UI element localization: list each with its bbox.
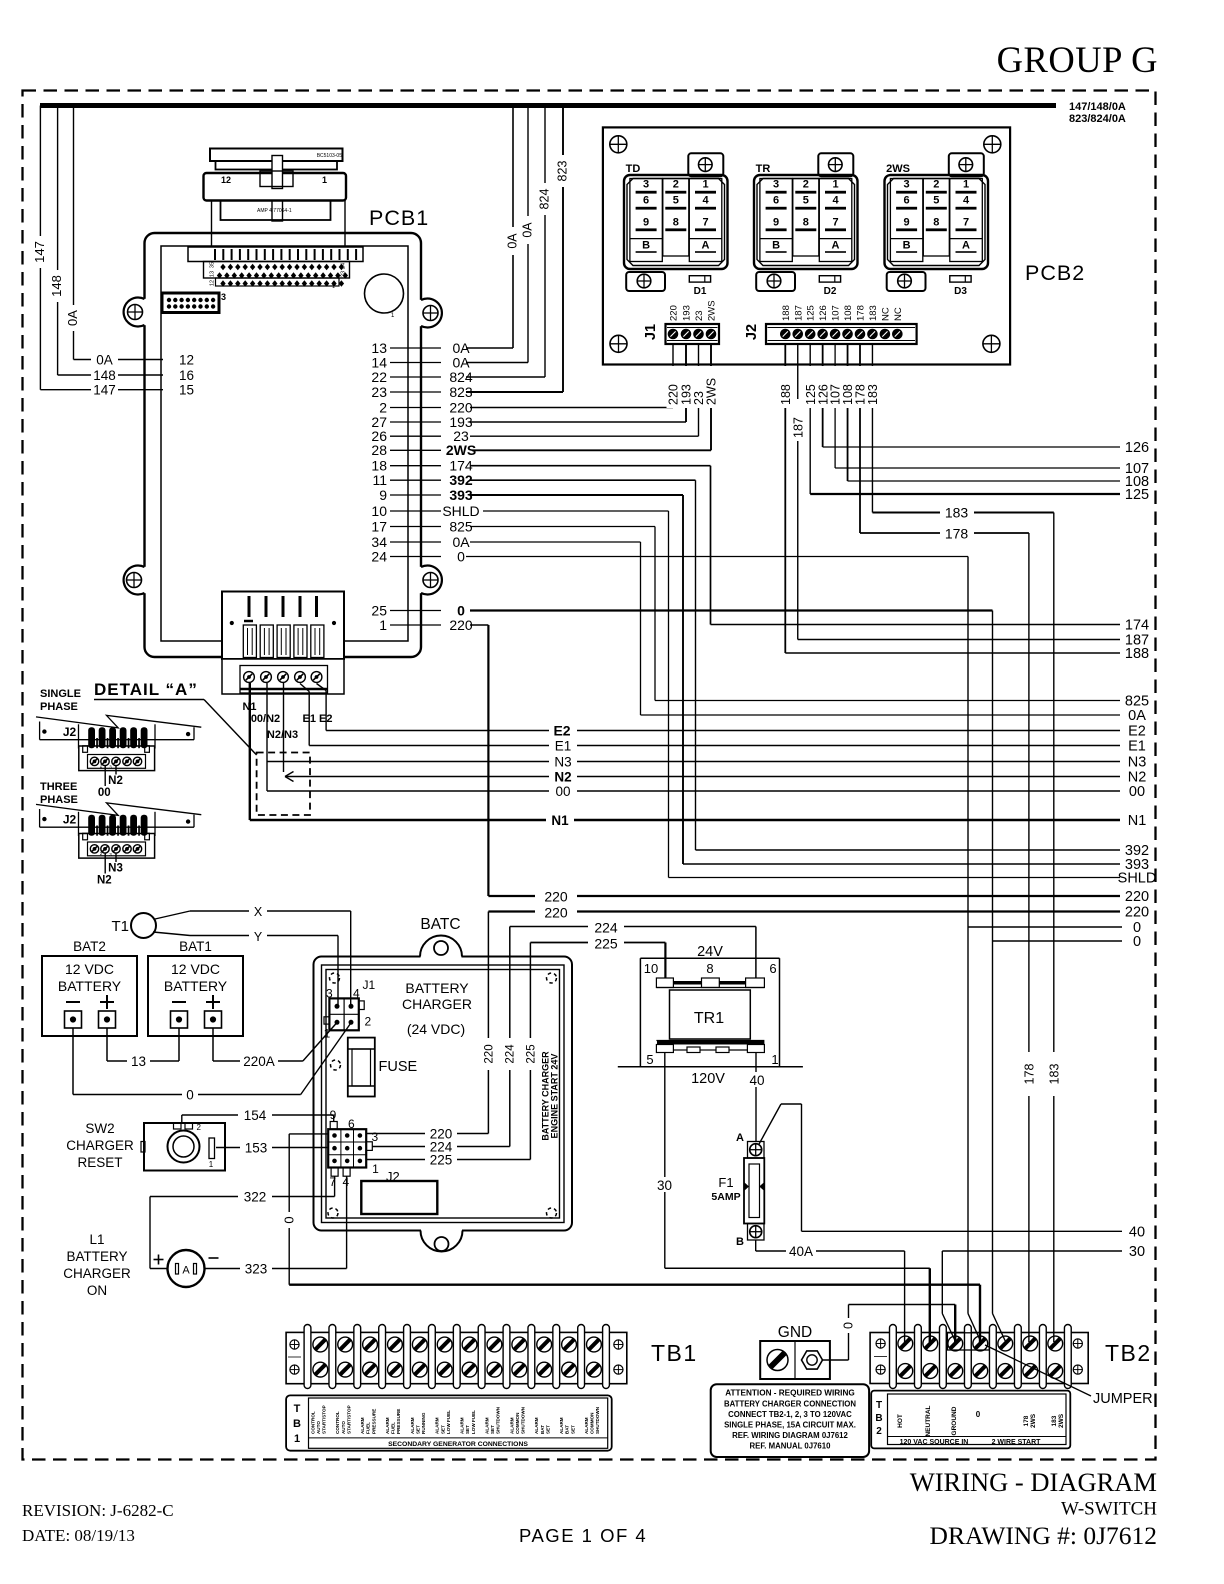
svg-text:178: 178 xyxy=(856,305,867,321)
wire N3 to right edge xyxy=(267,761,1120,763)
PCB1 pin 26 number xyxy=(371,428,387,444)
wire 30 TR1-5 to TB2-2 xyxy=(665,1053,930,1343)
wire label 107 below PCB2 J2 xyxy=(829,366,843,408)
net label 0 right edge xyxy=(1133,920,1141,936)
connector J2 BATC xyxy=(328,1122,372,1177)
svg-text:12: 12 xyxy=(210,280,216,286)
svg-text:126: 126 xyxy=(818,305,829,321)
svg-text:4: 4 xyxy=(353,987,360,1001)
J2 plate xyxy=(36,715,201,739)
svg-text:ATTENTION - REQUIRED WIRING: ATTENTION - REQUIRED WIRING xyxy=(725,1389,854,1398)
PCB1 pin 1 number xyxy=(379,617,387,633)
PCB1 pin 23 stub xyxy=(390,391,441,393)
wire label 183 below PCB2 J2 xyxy=(866,366,880,408)
wire 23 pin26 to PCB2 J1-3 xyxy=(470,344,699,436)
svg-text:183: 183 xyxy=(866,384,880,405)
net label 393 at pin 9 xyxy=(449,487,473,503)
svg-text:SET: SET xyxy=(570,1425,575,1434)
svg-text:3: 3 xyxy=(326,987,333,1001)
PCB1 pin 16 xyxy=(179,368,194,383)
svg-text:6: 6 xyxy=(904,195,910,207)
net label E2 right edge xyxy=(1128,724,1146,740)
svg-text:9: 9 xyxy=(773,216,779,228)
svg-text:N3: N3 xyxy=(1128,755,1147,771)
svg-text:12 VDC: 12 VDC xyxy=(65,961,114,977)
wire SHLD pin10 to right edge xyxy=(483,511,1120,878)
wire 188 PCB2 J2 to right edge xyxy=(785,344,1120,653)
PCB2 mounting screw bottom-left xyxy=(610,335,627,352)
svg-text:2 WIRE START: 2 WIRE START xyxy=(992,1439,1042,1446)
svg-text:0: 0 xyxy=(842,1322,856,1329)
relay TD pins 3/2/1 xyxy=(636,179,716,194)
svg-text:126: 126 xyxy=(1125,440,1149,456)
svg-text:AUTO: AUTO xyxy=(341,1421,346,1434)
relay socket 2WS label xyxy=(886,163,910,175)
subtitle W-SWITCH xyxy=(1061,1499,1157,1520)
svg-text:A: A xyxy=(962,239,970,251)
svg-text:J2: J2 xyxy=(63,813,77,827)
label 147 at pin 15 xyxy=(93,383,116,398)
wire label 178 below PCB2 J2 xyxy=(854,366,868,408)
svg-text:SINGLE PHASE, 15A CIRCUIT MAX.: SINGLE PHASE, 15A CIRCUIT MAX. xyxy=(724,1421,856,1430)
transformer TR1 pin labels top xyxy=(644,961,777,976)
svg-text:183: 183 xyxy=(945,505,969,521)
svg-text:D1: D1 xyxy=(694,286,707,297)
bus label 147/148/0A xyxy=(1069,101,1126,113)
wire 220 BATC J2-3 row xyxy=(366,1133,488,1135)
wire 40A fuse F1-B to TB2-1 xyxy=(756,1240,905,1342)
svg-text:GROUP G: GROUP G xyxy=(997,39,1158,80)
PCB1 pin 22 number xyxy=(371,369,387,385)
svg-text:WIRING - DIAGRAM: WIRING - DIAGRAM xyxy=(910,1467,1157,1497)
svg-text:SHUTDOWN: SHUTDOWN xyxy=(496,1406,501,1434)
svg-text:12 VDC: 12 VDC xyxy=(171,961,220,977)
relay socket TD label xyxy=(626,163,641,175)
BATC inner panel xyxy=(322,965,565,1223)
PCB1 pin 34 stub xyxy=(390,541,441,543)
svg-text:T: T xyxy=(876,1400,882,1411)
svg-text:323: 323 xyxy=(245,1262,268,1277)
wire label 225 vertical in BATC xyxy=(523,1038,538,1070)
TB1 label xyxy=(651,1340,698,1366)
svg-text:5: 5 xyxy=(803,195,809,207)
svg-text:N2: N2 xyxy=(108,775,123,787)
svg-text:147/148/0A: 147/148/0A xyxy=(1069,101,1126,113)
three phase label xyxy=(40,781,78,806)
wire label 220 mid2 xyxy=(535,904,577,921)
wire label 126 below PCB2 J2 xyxy=(816,366,830,408)
PCB1 pin 22 stub xyxy=(390,376,441,378)
wire label 220 vertical in BATC xyxy=(481,1038,496,1070)
svg-text:ALARM: ALARM xyxy=(584,1417,589,1434)
BATC corner holes xyxy=(328,973,557,1218)
svg-text:SET: SET xyxy=(490,1425,495,1434)
svg-text:393: 393 xyxy=(449,487,473,503)
svg-text:3: 3 xyxy=(643,179,649,191)
svg-text:N1: N1 xyxy=(1128,813,1147,829)
PCB1 pin 15 xyxy=(179,383,194,398)
connector J3 header on PCB1 xyxy=(162,292,226,313)
PCB1 pin 14 number xyxy=(371,354,387,370)
relay socket TR body xyxy=(754,175,858,269)
net label SHLD at pin 10 xyxy=(442,503,479,519)
svg-text:ALARM: ALARM xyxy=(509,1417,514,1434)
label N2 mid xyxy=(554,770,571,785)
svg-text:BAT2: BAT2 xyxy=(73,939,106,954)
PCB1 inner board edge xyxy=(161,246,408,641)
svg-text:3: 3 xyxy=(773,179,779,191)
svg-text:2: 2 xyxy=(876,1426,882,1437)
PCB1 pin 18 stub xyxy=(390,465,441,467)
transformer TR1 label xyxy=(694,1010,724,1027)
svg-text:ALARM: ALARM xyxy=(559,1417,564,1434)
svg-text:LOW FUEL: LOW FUEL xyxy=(471,1410,476,1434)
wire 00 to right edge xyxy=(267,683,1120,791)
svg-text:RESET: RESET xyxy=(77,1155,122,1170)
J2 connector fingers xyxy=(79,812,156,836)
label 322 xyxy=(244,1190,267,1205)
transformer TR1 core xyxy=(670,990,751,1039)
net label E1 right edge xyxy=(1128,739,1146,755)
svg-text:224: 224 xyxy=(594,920,618,936)
svg-text:40: 40 xyxy=(749,1073,764,1088)
wire label 178 mid xyxy=(940,525,974,542)
svg-text:HOT: HOT xyxy=(897,1414,904,1428)
label 40 at TR1 xyxy=(747,1072,766,1088)
svg-text:183: 183 xyxy=(1051,1415,1058,1426)
wire 823 pin23 to bus xyxy=(466,106,563,393)
svg-text:ALARM: ALARM xyxy=(435,1417,440,1434)
PCB1 pin 18 number xyxy=(371,458,387,474)
svg-text:00: 00 xyxy=(98,787,111,799)
svg-text:0: 0 xyxy=(1133,934,1141,950)
net label N2 right edge xyxy=(1128,770,1147,786)
svg-text:2: 2 xyxy=(197,1123,202,1132)
svg-text:T: T xyxy=(294,1403,301,1415)
label 40A xyxy=(789,1244,813,1259)
svg-text:BATTERY CHARGER CONNECTION: BATTERY CHARGER CONNECTION xyxy=(724,1400,856,1409)
BATC fuse component xyxy=(348,1038,375,1097)
svg-text:15: 15 xyxy=(179,383,194,398)
wire 147 (bus to PCB1 pin 15) xyxy=(40,106,163,390)
svg-text:2WS: 2WS xyxy=(1058,1413,1065,1428)
relay socket TR label xyxy=(756,163,771,175)
wire label 225 mid xyxy=(588,935,624,952)
svg-text:X: X xyxy=(254,905,263,919)
PCB1 pin 2 stub xyxy=(390,407,441,409)
svg-text:SET: SET xyxy=(465,1425,470,1434)
net label N3 right edge xyxy=(1128,755,1147,771)
PCB2 mounting screw bottom-right xyxy=(983,335,1000,352)
svg-text:225: 225 xyxy=(594,936,618,952)
svg-text:SET: SET xyxy=(440,1425,445,1434)
net label 824 at pin 22 xyxy=(449,369,473,385)
svg-text:5AMP: 5AMP xyxy=(711,1191,740,1203)
svg-text:125: 125 xyxy=(1125,487,1149,503)
svg-text:2: 2 xyxy=(803,179,809,191)
wire 174 pin18 to right edge xyxy=(470,466,1120,625)
svg-text:23: 23 xyxy=(694,310,705,321)
TB2 terminal screws xyxy=(898,1336,1063,1378)
wire 220 BATC J2-3 to right edge xyxy=(488,912,1120,1134)
svg-text:T1: T1 xyxy=(111,918,129,935)
wire 220A BAT1+ to BATC J1-1 xyxy=(213,1023,337,1062)
transformer TR1 bottom plate xyxy=(656,1041,764,1053)
svg-text:148: 148 xyxy=(49,275,64,297)
wire 153 SW2 to BATC J2 xyxy=(216,1147,328,1149)
svg-text:THREE: THREE xyxy=(40,781,77,793)
svg-text:823: 823 xyxy=(556,161,570,182)
wire 225 BATC J2 to TR1-10 xyxy=(530,943,665,1160)
svg-text:23: 23 xyxy=(371,384,387,400)
jumper callout xyxy=(985,1345,1153,1407)
terminal wire 00 xyxy=(98,766,111,799)
svg-text:12: 12 xyxy=(179,353,194,368)
svg-text:1: 1 xyxy=(324,1027,331,1041)
BATC text 24 VDC xyxy=(407,1021,465,1037)
PCB1 pin 2 number xyxy=(379,399,387,415)
svg-text:23: 23 xyxy=(341,271,347,277)
ground lug GND label xyxy=(778,1324,812,1341)
svg-text:CHARGER: CHARGER xyxy=(66,1138,134,1153)
svg-text:E2: E2 xyxy=(553,723,570,739)
svg-text:147: 147 xyxy=(32,241,47,263)
svg-text:12: 12 xyxy=(221,175,231,185)
net label 0A at pin 13 xyxy=(452,340,470,356)
J2 terminal strip xyxy=(79,833,155,858)
svg-text:TB1: TB1 xyxy=(651,1340,698,1366)
wire label 23 below PCB2 J1 xyxy=(692,366,706,408)
PCB1 mounting screw top-right xyxy=(423,306,438,321)
svg-text:F1: F1 xyxy=(718,1175,733,1190)
connector P12 lower shell xyxy=(212,201,346,248)
relay TD pins 6/5/4 xyxy=(636,195,716,210)
svg-text:8: 8 xyxy=(673,216,679,228)
diode D2 label xyxy=(824,286,837,297)
svg-text:8: 8 xyxy=(706,961,713,976)
revision note xyxy=(22,1501,174,1520)
wire label 193 below PCB2 J1 xyxy=(680,366,694,408)
svg-text:BATTERY: BATTERY xyxy=(66,1249,127,1264)
svg-text:392: 392 xyxy=(449,472,473,488)
net label 2WS at pin 28 xyxy=(446,442,476,458)
wire 107 PCB2 J2 to right edge xyxy=(835,344,1120,468)
transformer TR1 top plate xyxy=(656,978,764,988)
relay TD pins B/-/A xyxy=(636,239,716,253)
svg-text:BATTERY: BATTERY xyxy=(405,980,469,996)
svg-text:220: 220 xyxy=(544,905,568,921)
net label 825 at pin 17 xyxy=(449,518,473,534)
wire label 188 below PCB2 J2 xyxy=(779,366,793,408)
svg-text:224: 224 xyxy=(505,1044,517,1064)
wire 220 pin1 to right edge xyxy=(470,625,1120,896)
svg-text:SW2: SW2 xyxy=(85,1121,114,1136)
net label 392 right edge xyxy=(1125,843,1149,859)
PCB1 pin 9 number xyxy=(379,487,387,503)
TB2 end screws xyxy=(874,1339,1082,1374)
svg-text:107: 107 xyxy=(831,305,842,321)
wire Y T1 to BATC J1-3 xyxy=(153,932,338,1006)
svg-text:J1: J1 xyxy=(643,324,659,340)
net label 188 right edge xyxy=(1125,646,1149,662)
svg-text:183: 183 xyxy=(868,305,879,321)
svg-text:START/STOP: START/STOP xyxy=(322,1405,327,1434)
PCB1 pin 14 stub xyxy=(390,362,441,364)
net label 220 right edge xyxy=(1125,905,1149,921)
wire 0A (bus to PCB1 pin 12) xyxy=(74,106,164,360)
wire N1 to right edge xyxy=(250,683,1120,820)
svg-text:PHASE: PHASE xyxy=(40,701,78,713)
net label 220 at pin 1 xyxy=(449,617,473,633)
svg-text:RUNNING: RUNNING xyxy=(421,1412,426,1434)
svg-text:220: 220 xyxy=(449,617,473,633)
svg-text:NEUTRAL: NEUTRAL xyxy=(925,1405,932,1436)
battery BAT1 box xyxy=(148,956,243,1036)
terminal wire N3 xyxy=(108,853,123,874)
wire 225 BATC J2-1 row xyxy=(366,1159,530,1161)
wire label 2WS below PCB2 J1 xyxy=(705,366,719,408)
wire label 220 below PCB2 J1 xyxy=(667,366,681,408)
net label 0A right edge xyxy=(1128,708,1146,724)
PCB1 pin 13 stub xyxy=(390,347,441,349)
svg-text:Y: Y xyxy=(254,930,263,944)
svg-text:187: 187 xyxy=(793,305,804,321)
svg-text:40A: 40A xyxy=(789,1244,813,1259)
label 220 at BATC J2 xyxy=(430,1127,453,1142)
svg-text:188: 188 xyxy=(779,384,793,405)
connector J2 on PCB2 xyxy=(766,324,917,344)
svg-text:2: 2 xyxy=(673,179,679,191)
PCB1 pin 10 number xyxy=(371,503,387,519)
svg-text:2: 2 xyxy=(933,179,939,191)
PCB1 mounting screw bottom-left xyxy=(127,573,142,588)
transformer TR1 bracket xyxy=(618,958,803,1067)
connector J1 pin strip on PCB1 xyxy=(188,247,363,262)
svg-text:SET: SET xyxy=(415,1425,420,1434)
relay TD pins 9/8/7 xyxy=(636,216,716,231)
transformer TR1 label 24V xyxy=(697,944,723,960)
wire label 187 below PCB2 J2 xyxy=(791,399,805,441)
svg-text:CONNECT TB2-1, 2, 3 TO 120VAC: CONNECT TB2-1, 2, 3 TO 120VAC xyxy=(728,1410,852,1419)
net label 0A at pin 34 xyxy=(452,534,470,550)
svg-text:B: B xyxy=(903,239,911,251)
net label 174 right edge xyxy=(1125,618,1149,634)
page number xyxy=(519,1525,647,1546)
svg-text:10: 10 xyxy=(644,961,658,976)
wire N2 stub into detail box xyxy=(283,683,285,772)
wire 323 L1- to BATC J2-4 xyxy=(205,1176,347,1268)
TB2 label xyxy=(1105,1340,1152,1366)
wire 322 L1+ to BATC J2-7 xyxy=(150,1176,335,1268)
label X xyxy=(254,905,263,919)
net label 40 right edge xyxy=(1129,1224,1145,1240)
label 0A at pin 12 xyxy=(96,353,113,368)
terminal wire N2 xyxy=(108,766,123,787)
svg-text:13: 13 xyxy=(210,271,216,277)
svg-text:9: 9 xyxy=(904,216,910,228)
terminal block TB2 body xyxy=(870,1333,1088,1384)
svg-text:153: 153 xyxy=(245,1141,268,1156)
svg-text:220: 220 xyxy=(669,305,680,321)
connector TB field terminal block lower xyxy=(222,659,344,694)
svg-text:GROUND: GROUND xyxy=(951,1406,958,1435)
lamp L1 battery charger on xyxy=(154,1250,219,1287)
J2 terminal strip xyxy=(79,746,155,771)
svg-text:147: 147 xyxy=(93,383,116,398)
wire 824 pin22 to bus xyxy=(466,106,545,378)
net label 823 at pin 23 xyxy=(449,384,473,400)
wire 393 pin9 to right edge xyxy=(470,495,1120,864)
svg-text:13: 13 xyxy=(131,1054,146,1069)
svg-text:GND: GND xyxy=(778,1324,812,1341)
PCB1 board outline xyxy=(124,233,442,657)
svg-text:220A: 220A xyxy=(243,1054,275,1069)
net label 125 right edge xyxy=(1125,487,1149,503)
svg-text:4: 4 xyxy=(702,195,709,207)
relay 2WS pins 9/8/7 xyxy=(896,216,976,231)
svg-text:1: 1 xyxy=(322,175,327,185)
PCB1 pin 23 number xyxy=(371,384,387,400)
TB2 separators xyxy=(890,1325,1072,1389)
PCB1 pin 28 stub xyxy=(390,449,441,451)
relay socket TD mounting tab top xyxy=(688,153,723,176)
svg-text:0: 0 xyxy=(457,548,465,564)
svg-text:DRAWING #: 0J7612: DRAWING #: 0J7612 xyxy=(930,1521,1157,1550)
svg-text:0A: 0A xyxy=(506,233,520,249)
net label 392 at pin 11 xyxy=(449,472,473,488)
connector P12 body xyxy=(204,173,347,201)
net label 23 at pin 26 xyxy=(453,428,469,444)
svg-text:ON: ON xyxy=(87,1283,107,1298)
wire 187 PCB2 J2 to right edge xyxy=(798,344,1120,640)
fuse F1 terminal B xyxy=(736,1224,764,1249)
svg-text:E1: E1 xyxy=(1128,739,1146,755)
svg-text:2WS: 2WS xyxy=(886,163,910,175)
svg-text:174: 174 xyxy=(1125,618,1149,634)
svg-text:9: 9 xyxy=(330,1108,337,1122)
svg-text:BC5103-05: BC5103-05 xyxy=(317,153,343,159)
svg-text:1: 1 xyxy=(963,179,969,191)
svg-text:322: 322 xyxy=(244,1190,267,1205)
label E1 mid xyxy=(555,739,572,754)
label 30 on wire xyxy=(655,1177,674,1193)
date note xyxy=(22,1526,135,1545)
PCB1 pin 9 stub xyxy=(390,494,441,496)
wire E1 to right edge xyxy=(300,684,1120,746)
terminal label N1 xyxy=(242,701,256,713)
diode D2 xyxy=(819,276,840,282)
svg-text:A: A xyxy=(702,239,710,251)
diode D3 label xyxy=(954,286,967,297)
net label 108 right edge xyxy=(1125,474,1149,490)
svg-text:REF. WIRING DIAGRAM 0J7612: REF. WIRING DIAGRAM 0J7612 xyxy=(732,1431,848,1440)
TB1 separators xyxy=(304,1325,609,1389)
relay socket 2WS mounting tab bottom xyxy=(887,272,926,291)
wire 224 BATC J2 to TR1-6 xyxy=(510,927,756,1147)
svg-text:225: 225 xyxy=(430,1153,453,1168)
svg-text:CHARGER: CHARGER xyxy=(63,1266,131,1281)
svg-text:30: 30 xyxy=(1129,1244,1145,1260)
svg-text:6: 6 xyxy=(643,195,649,207)
svg-text:BAT1: BAT1 xyxy=(179,939,212,954)
wire X T1 to BATC J1-4 xyxy=(155,911,351,1006)
connector J1 BATC xyxy=(324,998,364,1030)
svg-text:FUEL: FUEL xyxy=(391,1422,396,1434)
wire 183 PCB2 J2 to TB2-7 xyxy=(872,344,1053,1342)
wire 126 PCB2 J2 to right edge xyxy=(823,344,1120,447)
net label 0 right edge xyxy=(1133,934,1141,950)
svg-text:PCB1: PCB1 xyxy=(369,206,429,230)
